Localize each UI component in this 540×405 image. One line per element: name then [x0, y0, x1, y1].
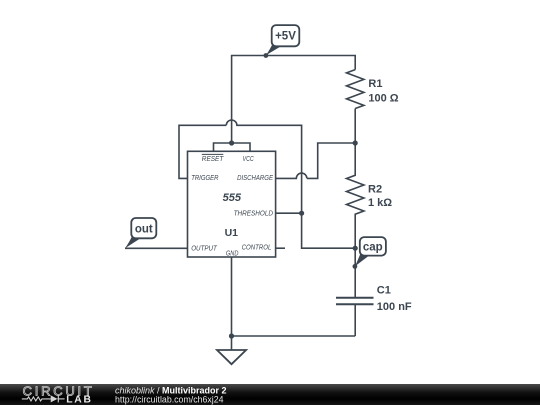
wire reset-vcc bracket: [214, 143, 251, 151]
svg-text:100 Ω: 100 Ω: [368, 92, 398, 104]
svg-text:TRIGGER: TRIGGER: [191, 173, 219, 182]
svg-text:C1: C1: [377, 285, 391, 297]
wire discharge link: [307, 143, 355, 178]
svg-text:1 kΩ: 1 kΩ: [368, 197, 392, 209]
flag cap: [355, 237, 386, 266]
svg-text:VCC: VCC: [243, 154, 255, 163]
op-amp U1 box: [188, 151, 276, 257]
node cap top: [353, 246, 358, 251]
flag out: [125, 218, 156, 248]
wire hop discharge: [276, 173, 307, 178]
flag +5V: [266, 25, 299, 55]
svg-text:THRESHOLD: THRESHOLD: [234, 208, 274, 217]
svg-text:100 nF: 100 nF: [377, 301, 412, 313]
wire gnd stub: [231, 257, 233, 350]
wire hop trigger: [226, 120, 355, 248]
node reset-vcc: [229, 140, 234, 145]
wire cap top: [354, 248, 356, 298]
svg-text:RESET: RESET: [202, 154, 225, 163]
resistor R2: [347, 143, 364, 248]
resistor R1: [347, 70, 364, 109]
svg-text:R1: R1: [368, 78, 382, 90]
node +5V tap: [264, 53, 269, 58]
svg-text:http://circuitlab.com/ch6xj24: http://circuitlab.com/ch6xj24: [115, 394, 224, 404]
svg-text:U1: U1: [225, 227, 239, 239]
svg-text:LAB: LAB: [66, 395, 93, 405]
svg-text:DISCHARGE: DISCHARGE: [237, 173, 274, 182]
ground: [217, 350, 246, 364]
capacitor C1: [336, 298, 374, 305]
svg-text:out: out: [135, 224, 153, 236]
wire top rail: [232, 56, 356, 144]
wire R1 bottom: [354, 109, 356, 144]
labels: [191, 78, 412, 313]
node gnd rail: [229, 333, 234, 338]
node threshold: [299, 211, 304, 216]
node cap flag tap: [353, 264, 358, 269]
svg-text:GND: GND: [226, 248, 239, 257]
node R1-R2: [353, 140, 358, 145]
wire output: [125, 247, 188, 249]
wire control stub: [276, 247, 285, 249]
footer bar: [0, 384, 540, 405]
node junction dots: [229, 53, 358, 339]
svg-text:cap: cap: [363, 242, 383, 254]
svg-text:CONTROL: CONTROL: [242, 243, 272, 252]
CircuitLab logo resistor-diode glyph: [22, 395, 65, 402]
svg-text:+5V: +5V: [275, 31, 296, 43]
wire threshold pin: [276, 212, 302, 214]
svg-text:OUTPUT: OUTPUT: [191, 244, 218, 253]
svg-text:555: 555: [223, 192, 242, 204]
wire bottom rail: [232, 335, 356, 337]
svg-text:R2: R2: [368, 184, 382, 196]
wire cap bottom: [354, 304, 356, 336]
wire trigger loop: [179, 125, 226, 178]
